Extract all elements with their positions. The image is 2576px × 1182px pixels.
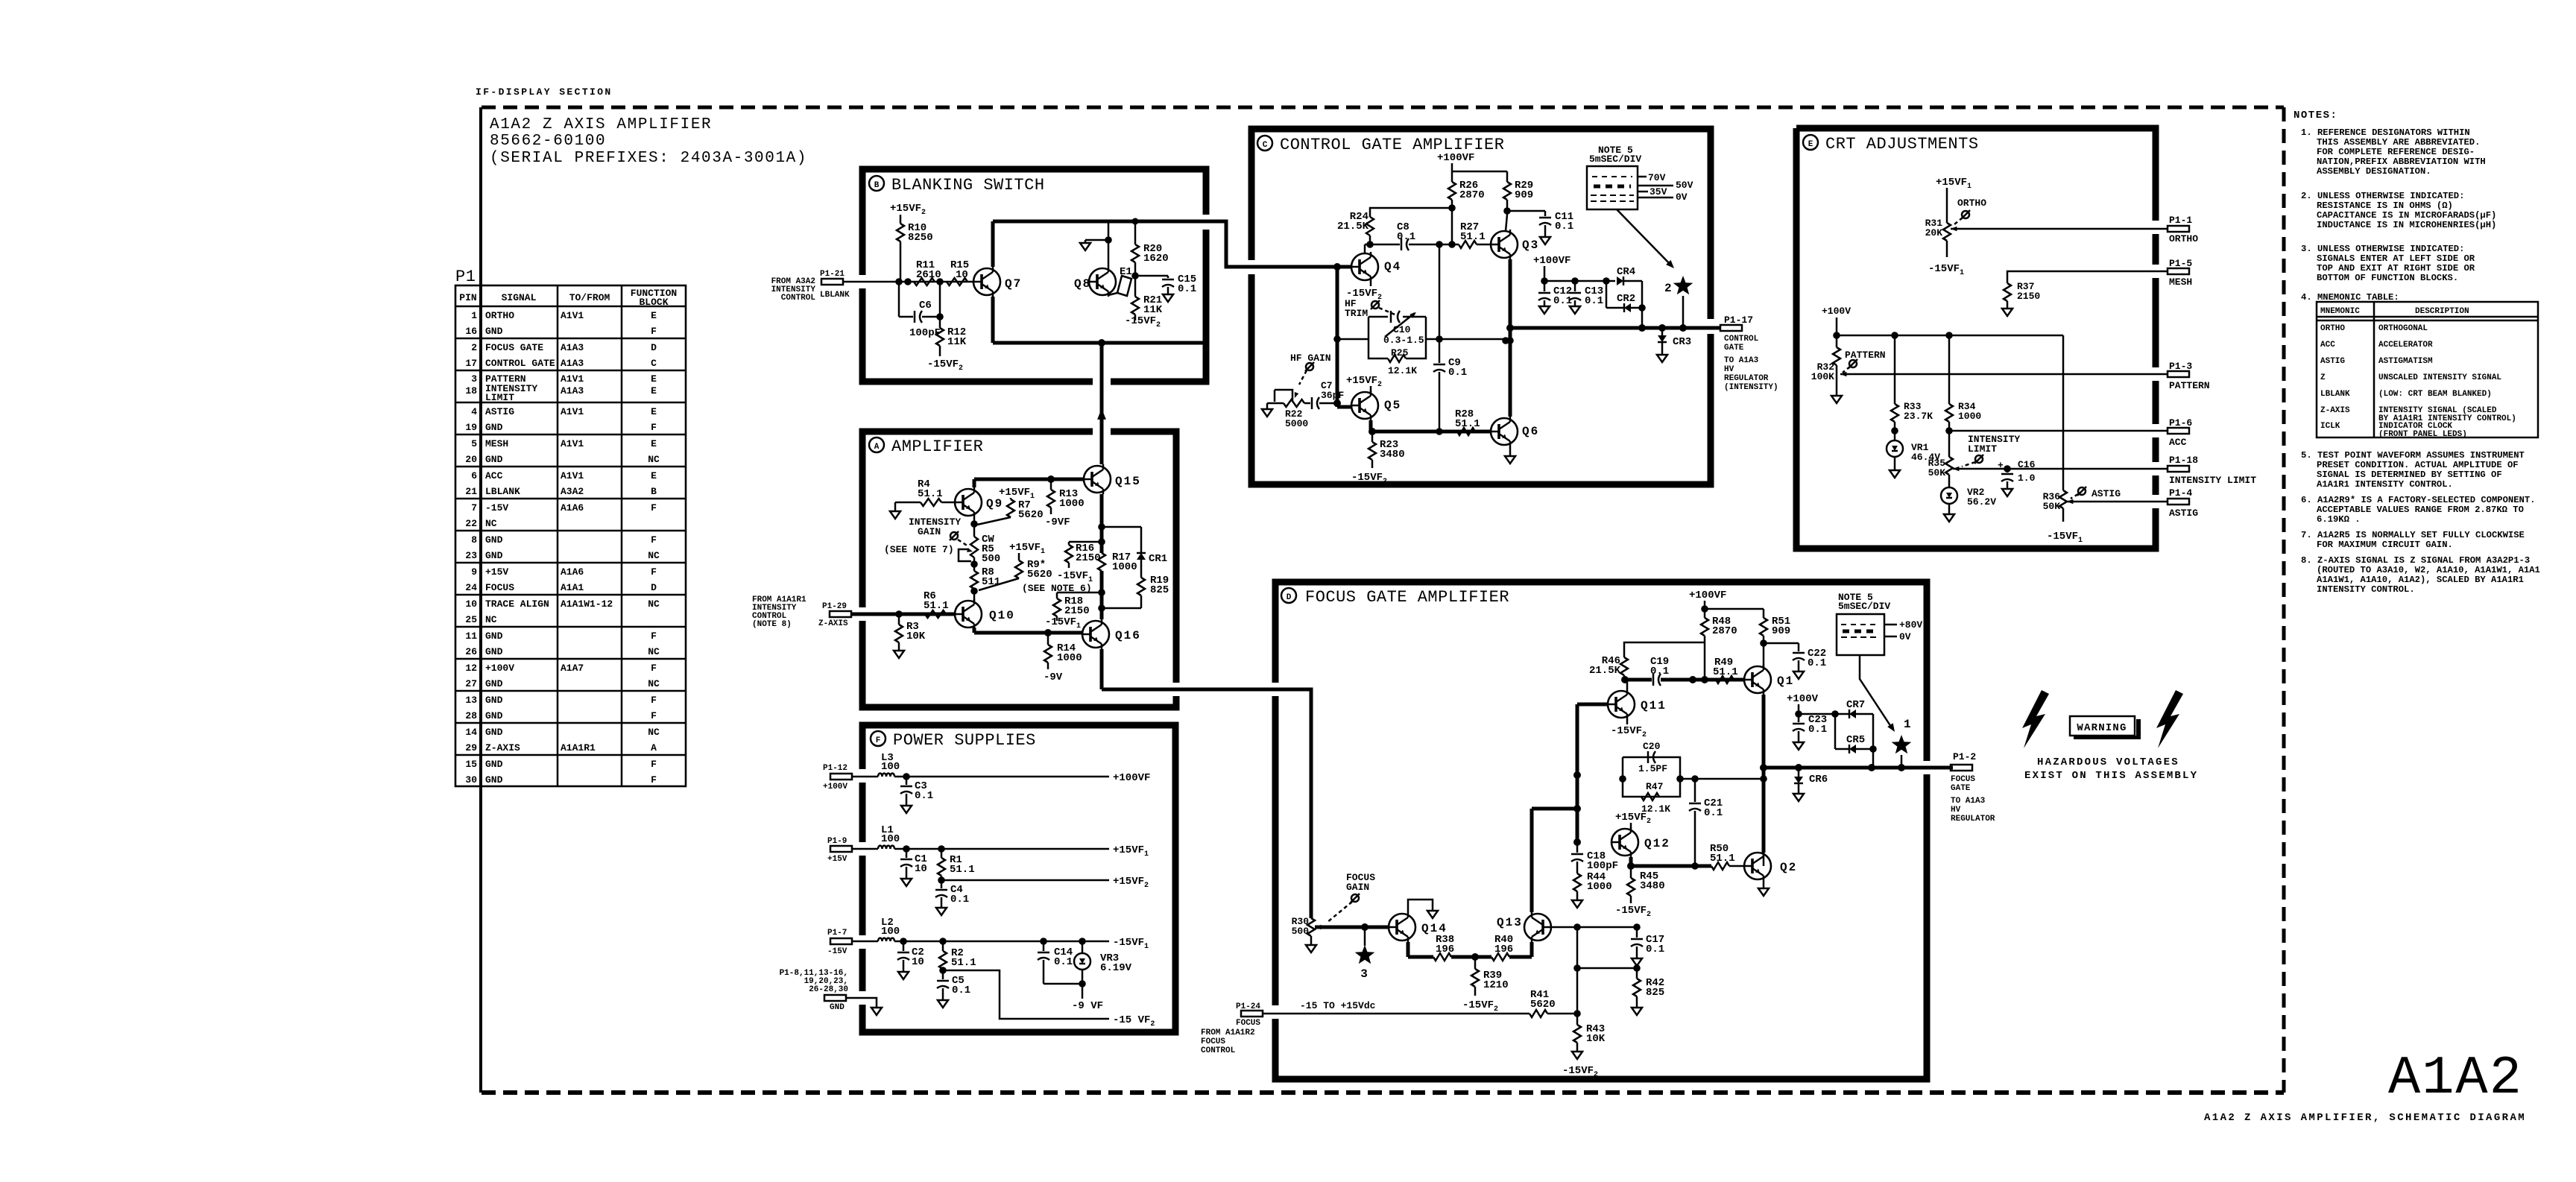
wire Q7 collector loop	[993, 221, 1351, 267]
svg-text:20K: 20K	[1925, 227, 1943, 238]
svg-text:2: 2	[1664, 282, 1673, 295]
svg-text:+100V: +100V	[1787, 693, 1819, 705]
svg-text:+100VF: +100VF	[1533, 255, 1570, 267]
connector P1-17 CONTROL GATE output	[1720, 315, 1778, 392]
svg-text:3480: 3480	[1380, 449, 1405, 461]
svg-text:50K: 50K	[2043, 501, 2061, 512]
potentiometer R36	[2043, 490, 2168, 545]
svg-text:0.1: 0.1	[1646, 944, 1664, 955]
function block B BLANKING SWITCH border	[862, 169, 1206, 382]
wire Q14 collector to ground	[1408, 900, 1438, 918]
svg-text:F: F	[651, 502, 657, 513]
resistor R24	[1337, 208, 1452, 248]
svg-text:1000: 1000	[1112, 561, 1137, 573]
svg-text:CR6: CR6	[1809, 774, 1828, 786]
svg-text:0.1: 0.1	[1178, 283, 1196, 295]
capacitor C21	[1689, 779, 1723, 866]
svg-text:LBLANK: LBLANK	[2320, 390, 2350, 399]
svg-text:P1-1: P1-1	[2169, 215, 2192, 226]
capacitor C5	[937, 970, 970, 1008]
svg-text:(NOTE 8): (NOTE 8)	[752, 620, 792, 629]
svg-text:0.1: 0.1	[915, 790, 933, 802]
test point star 2	[1664, 276, 1693, 328]
ground for Q6	[1505, 446, 1515, 464]
svg-text:12: 12	[465, 663, 477, 674]
svg-text:2870: 2870	[1712, 625, 1737, 637]
wire blanking output down to block A	[1097, 343, 1106, 464]
svg-text:P1-21: P1-21	[820, 270, 845, 279]
svg-text:ASTIG: ASTIG	[2092, 488, 2121, 499]
note 3	[2301, 244, 2475, 283]
svg-text:PRESET CONDITION. ACTUAL AMPLI: PRESET CONDITION. ACTUAL AMPLITUDE OF	[2317, 460, 2519, 470]
wire Q3 emitter to exit	[1506, 259, 1514, 417]
svg-text:P1-9: P1-9	[827, 837, 847, 846]
resistor R33	[1891, 335, 1933, 440]
svg-text:10: 10	[912, 956, 924, 968]
adjustment screw for R5	[950, 531, 968, 546]
svg-text:TO/FROM: TO/FROM	[569, 292, 610, 303]
svg-text:IF-DISPLAY SECTION: IF-DISPLAY SECTION	[476, 86, 613, 98]
svg-text:P1-29: P1-29	[822, 602, 847, 611]
transistor Q5	[1351, 391, 1401, 420]
svg-text:A1A6: A1A6	[561, 566, 584, 578]
svg-text:(ROUTED TO A3A10, W2, A1A10, A: (ROUTED TO A3A10, W2, A1A10, A1A1W1, A1A…	[2317, 565, 2540, 575]
note 2	[2301, 191, 2496, 230]
capacitor C11	[1539, 211, 1573, 244]
note 6	[2301, 495, 2536, 525]
resistor R6	[924, 590, 949, 618]
svg-text:GND: GND	[485, 646, 503, 657]
svg-text:A1A3: A1A3	[561, 385, 584, 396]
test point star 3	[1355, 927, 1375, 981]
resistor R17	[1098, 552, 1137, 573]
svg-text:A1A2 Z AXIS AMPLIFIER, SCHEMAT: A1A2 Z AXIS AMPLIFIER, SCHEMATIC DIAGRAM	[2204, 1112, 2526, 1124]
svg-text:0.1: 0.1	[1397, 231, 1415, 243]
svg-text:ACC: ACC	[485, 470, 503, 481]
svg-text:1.0: 1.0	[2018, 473, 2036, 484]
svg-text:GND: GND	[485, 454, 503, 465]
label +15VF2 above Q5	[1346, 375, 1382, 392]
svg-text:CRT ADJUSTMENTS: CRT ADJUSTMENTS	[1825, 135, 1979, 154]
svg-text:18: 18	[465, 385, 477, 396]
svg-text:1.5PF: 1.5PF	[1638, 763, 1667, 774]
svg-text:1: 1	[471, 310, 477, 321]
svg-text:1000: 1000	[1059, 498, 1085, 510]
svg-text:B: B	[874, 181, 880, 190]
capacitor C8	[1397, 221, 1415, 250]
caption	[2204, 1112, 2526, 1124]
potentiometer R35	[1928, 431, 2168, 487]
net +15VF2 supply for R10	[890, 203, 926, 224]
svg-text:0.1: 0.1	[1704, 807, 1723, 819]
svg-text:Q7: Q7	[1005, 277, 1022, 291]
svg-text:5. TEST POINT WAVEFORM ASSUMES: 5. TEST POINT WAVEFORM ASSUMES INSTRUMEN…	[2301, 450, 2525, 461]
svg-text:56.2V: 56.2V	[1967, 496, 1996, 508]
note 5	[2301, 450, 2525, 490]
svg-text:0.1: 0.1	[1553, 295, 1572, 307]
svg-text:Q13: Q13	[1497, 916, 1523, 929]
svg-text:50K: 50K	[1928, 467, 1946, 478]
svg-text:Q15: Q15	[1115, 475, 1141, 488]
resistor R11	[914, 259, 941, 285]
svg-text:25: 25	[465, 614, 477, 625]
svg-text:F: F	[651, 326, 657, 337]
net +100V block D	[1787, 693, 1839, 718]
wire focus control input	[1263, 1010, 1581, 1017]
inductor L3	[878, 752, 900, 777]
wire Q12 emitter rail	[1627, 857, 1711, 870]
wire Q5 emitter rail	[1368, 420, 1491, 435]
ground for Q2	[1758, 881, 1769, 896]
svg-text:AMPLIFIER: AMPLIFIER	[891, 437, 983, 456]
svg-text:1000: 1000	[1057, 652, 1082, 664]
svg-text:A1V1: A1V1	[561, 310, 584, 321]
net +100VF for C12/C13	[1533, 255, 1610, 285]
block A title	[869, 437, 983, 456]
svg-text:13: 13	[465, 695, 477, 706]
svg-text:+15V: +15V	[827, 855, 847, 864]
resistor R51	[1760, 609, 1790, 666]
resistor R13	[1045, 479, 1085, 528]
svg-text:DESCRIPTION: DESCRIPTION	[2415, 307, 2469, 316]
svg-text:GND: GND	[485, 695, 503, 706]
svg-text:P1: P1	[455, 268, 476, 286]
svg-text:-15V: -15V	[485, 502, 508, 513]
sheet label A1A2	[2388, 1048, 2523, 1109]
svg-text:51.1: 51.1	[1713, 666, 1738, 678]
svg-text:F: F	[651, 695, 657, 706]
svg-text:INTENSITY CONTROL.: INTENSITY CONTROL.	[2317, 584, 2415, 595]
svg-text:50V: 50V	[1676, 180, 1693, 191]
svg-text:ORTHO: ORTHO	[2169, 233, 2198, 244]
diode CR3	[1657, 328, 1691, 362]
wire focus gate output	[1764, 764, 1953, 771]
svg-text:5620: 5620	[1530, 999, 1556, 1011]
page dashed border	[481, 107, 2284, 1093]
svg-text:REGULATOR: REGULATOR	[1724, 374, 1769, 383]
svg-text:SIGNAL IS DETERMINED BY SETTIN: SIGNAL IS DETERMINED BY SETTING OF	[2317, 470, 2502, 480]
svg-text:2. UNLESS OTHERWISE INDICATED:: 2. UNLESS OTHERWISE INDICATED:	[2301, 191, 2464, 201]
svg-text:+100V: +100V	[485, 663, 514, 674]
svg-text:F: F	[876, 736, 881, 745]
svg-text:FOCUS GATE AMPLIFIER: FOCUS GATE AMPLIFIER	[1305, 588, 1509, 607]
svg-text:Q5: Q5	[1384, 399, 1401, 412]
wire Q10 emitter rail	[974, 628, 1082, 636]
svg-text:NC: NC	[648, 646, 660, 657]
svg-text:21: 21	[465, 486, 477, 497]
zener diode VR2	[1941, 487, 1996, 522]
label ORTHO and screw	[1954, 197, 1986, 224]
svg-text:D: D	[651, 582, 657, 593]
svg-text:825: 825	[1150, 584, 1169, 596]
svg-text:Z: Z	[2320, 373, 2326, 382]
svg-text:0V: 0V	[1899, 631, 1911, 642]
svg-text:(LOW: CRT BEAM BLANKED): (LOW: CRT BEAM BLANKED)	[2378, 390, 2492, 399]
svg-text:(FRONT PANEL LEDS): (FRONT PANEL LEDS)	[2378, 430, 2467, 439]
svg-text:FOCUS: FOCUS	[485, 582, 514, 593]
resistor R50	[1710, 843, 1744, 870]
svg-text:GND: GND	[485, 550, 503, 561]
svg-text:30: 30	[465, 774, 477, 786]
svg-text:D: D	[651, 342, 657, 353]
connector P1-6 ACC	[2168, 417, 2192, 448]
svg-text:A3A2: A3A2	[561, 486, 584, 497]
waveform box NOTE 5 control gate	[1587, 145, 1693, 268]
diode CR4	[1606, 266, 1642, 285]
potentiometer R30	[1292, 916, 1389, 952]
svg-text:12.1K: 12.1K	[1388, 365, 1417, 376]
waveform box NOTE 5 focus gate	[1837, 592, 1922, 732]
svg-text:ORTHO: ORTHO	[2320, 324, 2345, 333]
resistor R44	[1572, 871, 1612, 908]
wire R29 to Q3 collector	[1503, 207, 1545, 231]
svg-text:8: 8	[471, 534, 477, 546]
svg-text:2150: 2150	[1064, 605, 1090, 617]
svg-text:22: 22	[465, 518, 477, 529]
svg-text:ASTIG: ASTIG	[2169, 508, 2198, 519]
function block D border	[1275, 582, 1927, 1079]
svg-text:36pF: 36pF	[1321, 390, 1344, 401]
svg-text:E: E	[651, 438, 657, 449]
svg-text:F: F	[651, 630, 657, 642]
capacitor C23	[1793, 714, 1827, 750]
transistor Q11	[1608, 689, 1667, 719]
ground for R4	[890, 502, 921, 519]
svg-text:GND: GND	[485, 678, 503, 689]
svg-text:CR3: CR3	[1673, 336, 1691, 348]
svg-text:A1A1W1-12: A1A1W1-12	[561, 598, 613, 610]
resistor R45	[1615, 866, 1665, 919]
svg-text:LIMIT: LIMIT	[485, 392, 514, 403]
svg-text:GND: GND	[485, 727, 503, 738]
svg-text:E1: E1	[1120, 266, 1132, 278]
transistor Q1	[1744, 665, 1794, 695]
resistor R46	[1589, 642, 1705, 680]
svg-text:2: 2	[471, 342, 477, 353]
svg-text:51.1: 51.1	[924, 600, 949, 612]
svg-text:0.1: 0.1	[1054, 956, 1073, 968]
resistor R2	[939, 941, 976, 970]
capacitor C7	[1304, 380, 1344, 409]
node line C8/R27	[1365, 241, 1491, 253]
svg-text:0.3-1.5: 0.3-1.5	[1383, 335, 1424, 346]
svg-text:F: F	[651, 422, 657, 433]
svg-text:909: 909	[1515, 189, 1533, 201]
resistor R23	[1351, 432, 1405, 486]
svg-text:PIN: PIN	[459, 292, 476, 303]
capacitor C12	[1538, 281, 1572, 314]
net +100V block E	[1822, 306, 2063, 490]
svg-text:BLANKING SWITCH: BLANKING SWITCH	[891, 176, 1045, 195]
svg-text:TRIM: TRIM	[1345, 308, 1368, 319]
wire Q1 emitter output rail	[1760, 695, 1767, 853]
wire Q14 emitter	[1408, 942, 1433, 957]
label HF GAIN and screw	[1290, 353, 1331, 385]
svg-text:51.1: 51.1	[1460, 231, 1486, 243]
svg-text:A1A2 Z AXIS AMPLIFIER: A1A2 Z AXIS AMPLIFIER	[490, 116, 712, 133]
connector P1-3 PATTERN	[2168, 361, 2210, 391]
resistor R8	[970, 557, 1000, 601]
net +15VF1 for R31	[1936, 177, 1972, 223]
svg-text:BOTTOM OF FUNCTION BLOCKS.: BOTTOM OF FUNCTION BLOCKS.	[2317, 273, 2458, 283]
resistor R1	[938, 849, 975, 880]
svg-text:CR5: CR5	[1846, 734, 1865, 746]
svg-text:100: 100	[881, 761, 900, 773]
svg-text:HV: HV	[1951, 806, 1961, 815]
svg-text:TO A1A3: TO A1A3	[1951, 797, 1986, 806]
label HF TRIM and screw	[1345, 298, 1398, 319]
svg-text:1: 1	[1904, 718, 1913, 731]
wire Q15 emitter chain	[1098, 494, 1105, 619]
svg-text:A1A6: A1A6	[561, 502, 584, 513]
connector P1 pin table	[455, 268, 686, 786]
resistor R18	[1045, 592, 1102, 630]
svg-text:TOP AND EXIT AT RIGHT SIDE OR: TOP AND EXIT AT RIGHT SIDE OR	[2317, 263, 2475, 274]
svg-text:INTENSITY LIMIT: INTENSITY LIMIT	[2169, 475, 2256, 486]
svg-text:21.5K: 21.5K	[1337, 221, 1369, 233]
svg-text:LBLANK: LBLANK	[485, 486, 520, 497]
svg-text:ACCEPTABLE VALUES RANGE FROM 2: ACCEPTABLE VALUES RANGE FROM 2.87KΩ TO	[2317, 505, 2524, 515]
resistor R37	[2002, 271, 2168, 316]
capacitor C4	[935, 880, 969, 915]
wire +15VF2 rail	[938, 876, 1149, 890]
svg-text:24: 24	[465, 582, 477, 593]
svg-text:ORTHOGONAL: ORTHOGONAL	[2378, 324, 2428, 333]
svg-text:10: 10	[915, 863, 927, 875]
wire R38-R40 node	[1451, 953, 1491, 961]
svg-text:Z-AXIS: Z-AXIS	[485, 742, 520, 753]
svg-text:D: D	[1287, 593, 1292, 602]
svg-text:0.1: 0.1	[1555, 221, 1573, 233]
resistor R34	[1945, 335, 1981, 434]
zener diode VR1	[1887, 440, 1940, 478]
svg-text:0.1: 0.1	[950, 894, 969, 906]
svg-text:825: 825	[1646, 987, 1664, 999]
resistor R3	[894, 614, 926, 658]
svg-text:CONTROL: CONTROL	[1724, 335, 1759, 344]
inductor L2	[878, 917, 900, 941]
wire Q8 emitter to E1	[1108, 293, 1117, 295]
resistor R12	[927, 317, 967, 373]
wire Q16 emitter output	[1102, 649, 1311, 918]
svg-text:9: 9	[471, 566, 477, 578]
svg-text:BLOCK: BLOCK	[639, 297, 668, 308]
resistor R28	[1455, 408, 1480, 435]
transistor Q9	[955, 487, 1003, 517]
svg-text:NC: NC	[485, 518, 497, 529]
resistor R9 with +15VF1	[979, 542, 1092, 594]
capacitor C9	[1433, 244, 1467, 432]
svg-text:GND: GND	[485, 774, 503, 786]
svg-text:ICLK: ICLK	[2320, 422, 2340, 431]
resistor R14	[1044, 633, 1082, 683]
svg-text:SIGNALS ENTER AT LEFT SIDE OR: SIGNALS ENTER AT LEFT SIDE OR	[2317, 253, 2475, 264]
svg-text:Q6: Q6	[1522, 425, 1539, 438]
block B title	[869, 176, 1045, 195]
connector P1-4 ASTIG	[2168, 487, 2198, 519]
diode CR7	[1835, 699, 1873, 749]
svg-text:A: A	[874, 443, 880, 452]
net +100VF top	[1437, 152, 1507, 171]
svg-text:E: E	[651, 373, 657, 385]
label INTENSITY GAIN	[884, 516, 961, 555]
svg-text:17: 17	[465, 358, 477, 369]
svg-text:8250: 8250	[908, 232, 933, 244]
svg-text:+15V: +15V	[485, 566, 508, 578]
svg-text:C10: C10	[1393, 324, 1411, 335]
zener diode VR3	[1044, 941, 1132, 1012]
transistor Q14	[1389, 912, 1448, 942]
svg-text:CR4: CR4	[1617, 266, 1635, 278]
svg-text:3: 3	[1360, 967, 1369, 981]
svg-text:ACC: ACC	[2169, 437, 2187, 448]
svg-text:A1A1: A1A1	[561, 582, 584, 593]
svg-text:26-28,30: 26-28,30	[809, 985, 848, 994]
resistor R15	[947, 259, 969, 285]
capacitor C19	[1650, 656, 1669, 686]
label +15VF2 above Q12	[1615, 812, 1651, 829]
svg-text:F: F	[651, 759, 657, 770]
resistor R21	[1125, 276, 1163, 329]
svg-text:F: F	[651, 663, 657, 674]
connector P1-24 FOCUS input	[1201, 1000, 1376, 1055]
svg-text:10: 10	[956, 269, 968, 281]
wire Q11 base vertical	[1573, 704, 1608, 846]
potentiometer R31	[1925, 218, 2168, 277]
svg-text:A1A1R1: A1A1R1	[561, 742, 596, 753]
svg-text:5mSEC/DIV: 5mSEC/DIV	[1589, 154, 1641, 165]
svg-text:A1A2: A1A2	[2388, 1048, 2523, 1109]
svg-text:11K: 11K	[947, 336, 967, 348]
svg-text:5000: 5000	[1285, 418, 1308, 429]
note 7	[2301, 530, 2525, 550]
svg-text:RESISTANCE IS IN OHMS (Ω): RESISTANCE IS IN OHMS (Ω)	[2317, 200, 2453, 211]
svg-text:NC: NC	[648, 550, 660, 561]
resistor R38	[1433, 934, 1454, 961]
transistor Q12	[1611, 827, 1670, 857]
svg-text:+100VF: +100VF	[1689, 590, 1726, 601]
svg-text:6.19KΩ .: 6.19KΩ .	[2317, 514, 2361, 525]
svg-text:5620: 5620	[1018, 509, 1044, 521]
connector P1-7 -15V	[827, 929, 878, 956]
wire Q11 collector	[1621, 676, 1629, 689]
potentiometer R5	[959, 517, 1000, 565]
svg-text:NC: NC	[648, 727, 660, 738]
svg-text:GAIN: GAIN	[918, 526, 941, 537]
transistor Q2	[1744, 851, 1797, 881]
svg-text:19: 19	[465, 422, 477, 433]
svg-text:6: 6	[471, 470, 477, 481]
svg-text:3. UNLESS OTHERWISE INDICATED:: 3. UNLESS OTHERWISE INDICATED:	[2301, 244, 2464, 254]
svg-text:THIS ASSEMBLY ARE ABBREVIATED.: THIS ASSEMBLY ARE ABBREVIATED.	[2317, 137, 2480, 148]
svg-text:ACC: ACC	[2320, 341, 2335, 350]
svg-text:70V: 70V	[1648, 172, 1666, 183]
svg-text:HF GAIN: HF GAIN	[1290, 353, 1331, 364]
parallel C20/R47 network	[1619, 741, 1764, 815]
svg-text:0.1: 0.1	[1585, 295, 1603, 307]
svg-text:ASTIGMATISM: ASTIGMATISM	[2378, 357, 2433, 366]
svg-text:A1V1: A1V1	[561, 406, 584, 417]
svg-text:SIGNAL: SIGNAL	[502, 292, 537, 303]
svg-text:A1A1R1 INTENSITY CONTROL.: A1A1R1 INTENSITY CONTROL.	[2317, 479, 2453, 490]
note 4 mnemonic table	[2301, 292, 2538, 439]
svg-text:P1-7: P1-7	[827, 929, 847, 938]
wire +15VF1 rail	[894, 844, 1149, 859]
connector P1-18 INTENSITY LIMIT	[2168, 455, 2256, 486]
label -15VF2 under Q4	[1346, 282, 1382, 302]
resistor R29	[1503, 171, 1533, 208]
svg-text:NC: NC	[648, 454, 660, 465]
